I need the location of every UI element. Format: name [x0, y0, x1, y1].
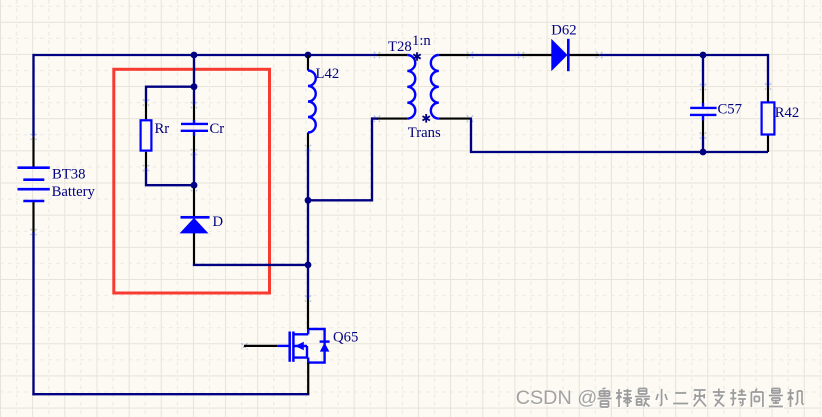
label L42	[316, 66, 340, 82]
svg-text:D: D	[213, 214, 224, 230]
label D62	[551, 22, 576, 38]
svg-text:C57: C57	[718, 102, 742, 118]
polarity mark primary	[413, 52, 420, 61]
svg-text:D62: D62	[551, 22, 576, 38]
wire Cr to node	[193, 152, 195, 188]
capacitor C57	[690, 87, 717, 136]
junction snubber top rail	[191, 52, 198, 59]
svg-text:L42: L42	[316, 66, 340, 82]
inductor L42	[308, 55, 316, 148]
wire secondary bottom rail	[471, 119, 768, 152]
svg-text:Cr: Cr	[210, 121, 225, 137]
wire Q65 drain pin	[307, 299, 309, 329]
svg-text:T28: T28	[388, 39, 412, 55]
battery BT38	[18, 137, 50, 232]
wire Rr branch top	[146, 87, 194, 103]
junction C57 bottom	[700, 149, 707, 156]
wire Q65 source pin	[307, 363, 309, 395]
junction drain node	[305, 262, 312, 269]
label Battery	[52, 184, 96, 200]
polarity mark secondary	[423, 114, 430, 123]
junction C57 top	[700, 52, 707, 59]
wire primary return	[308, 119, 378, 201]
svg-text:BT38: BT38	[52, 166, 85, 182]
wire Rr branch bottom	[146, 168, 194, 185]
wire drain node down	[307, 266, 309, 299]
label BT38	[52, 166, 85, 182]
label Rr	[155, 121, 170, 137]
label Cr	[210, 121, 225, 137]
label C57	[718, 102, 742, 118]
svg-text:CSDN @: CSDN @	[516, 387, 598, 409]
junction L42 top rail	[305, 52, 312, 59]
junction L42 bottom / primary return	[305, 197, 312, 204]
wire snubber bottom to drain node	[194, 264, 308, 265]
transformer T28 secondary winding	[431, 55, 470, 119]
pin end markers	[30, 52, 771, 302]
wire snubber top vertical	[193, 54, 195, 105]
junction snubber branch	[191, 83, 198, 90]
label R42	[775, 105, 799, 121]
resistor R42	[762, 87, 775, 153]
wire left vertical (battery branch)	[32, 54, 34, 395]
svg-text:R42: R42	[775, 105, 799, 121]
svg-text:1:n: 1:n	[412, 33, 431, 49]
red highlight rectangle	[114, 69, 270, 293]
wire R42 top corner	[767, 55, 768, 87]
wire diode to output node	[599, 54, 768, 56]
diode D	[181, 188, 210, 265]
body diode of Q65	[307, 329, 330, 363]
wire secondary top	[470, 54, 521, 56]
svg-text:Rr: Rr	[155, 121, 170, 137]
transformer T28 primary winding	[377, 55, 415, 119]
wire secondary bottom pin link	[470, 117, 472, 119]
wire bottom rail	[32, 393, 309, 395]
svg-text:Trans: Trans	[408, 125, 441, 141]
watermark	[516, 387, 805, 410]
capacitor Cr	[181, 105, 208, 152]
label D	[213, 214, 224, 230]
wire C57 bottom vertical	[702, 136, 704, 153]
label T28	[388, 39, 412, 55]
wire C57 top vertical	[702, 55, 704, 87]
wire L42 bottom to node	[307, 148, 309, 266]
label 1:n	[412, 33, 431, 49]
resistor Rr	[141, 103, 152, 169]
svg-text:Battery: Battery	[52, 184, 96, 200]
MOSFET Q65	[277, 329, 308, 363]
label Q65	[333, 329, 358, 345]
wire Q65 gate lead	[244, 345, 277, 347]
junction snubber bottom	[191, 182, 198, 189]
wire top rail	[34, 54, 378, 56]
no-connect cross at gate wire end	[241, 343, 247, 349]
label Trans	[408, 125, 441, 141]
svg-text:Q65: Q65	[333, 329, 358, 345]
diode D62	[521, 39, 599, 71]
